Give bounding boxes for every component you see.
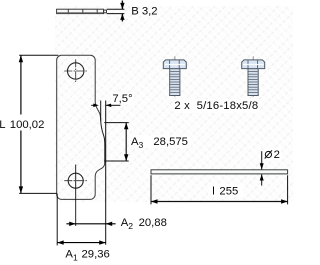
label diameter 2 — [264, 148, 282, 161]
bolt 1 head — [163, 60, 186, 69]
label 7,5deg — [111, 93, 135, 105]
diameter 2 arrow up — [260, 174, 264, 180]
bolt 1 centerline — [174, 56, 176, 98]
svg-text:L: L — [0, 119, 5, 131]
dimension l 255 extension lines — [151, 175, 288, 204]
bent edge line A — [101, 101, 105, 163]
angle 7,5 degree dimension left arrow — [91, 104, 94, 106]
svg-text:29,36: 29,36 — [82, 249, 110, 261]
bolt 1 threads — [170, 72, 179, 93]
dimension A2 left arrow — [69, 222, 76, 226]
dimension A1 left arrow — [57, 240, 64, 244]
dimension l arrow right — [281, 199, 288, 203]
bottom hole centerline extended to A2 dimension — [75, 165, 77, 227]
svg-text:2 x 5/16-18x5/8: 2 x 5/16-18x5/8 — [174, 100, 258, 112]
dimension B arrow up — [120, 14, 124, 20]
svg-text:100,02: 100,02 — [10, 119, 45, 131]
locating bar side view — [151, 170, 288, 174]
background hatch region — [55, 6, 293, 202]
svg-text:2: 2 — [274, 149, 280, 161]
svg-text:28,575: 28,575 — [153, 136, 188, 148]
dimension L arrow up — [19, 55, 23, 62]
dimension A1 right arrow — [99, 240, 106, 244]
top view thin plate body — [57, 9, 104, 13]
bolt 2 — [242, 56, 265, 98]
bolt 1 — [163, 56, 186, 98]
svg-text:A1: A1 — [65, 249, 78, 263]
top hole crosshair — [64, 59, 87, 83]
dimension A2 right arrow — [106, 222, 113, 226]
bolt 2 centerline — [252, 56, 254, 98]
dimension A3 extension lines — [104, 123, 129, 161]
diameter 2 arrow down — [260, 163, 264, 169]
dimension B 3,2 extension lines — [107, 1, 125, 22]
bolt 2 shaft — [248, 69, 258, 96]
bolt 1 shaft — [170, 69, 180, 96]
plate outline (front view) — [62, 55, 101, 121]
plate outline lower part — [57, 55, 105, 199]
angle 7,5 degree dimension right arrow — [106, 104, 120, 106]
dimension L arrow down — [19, 186, 23, 193]
bolt 2 head — [242, 60, 265, 69]
dimension A2 line — [66, 223, 115, 225]
top hole — [68, 63, 84, 79]
bottom hole — [68, 173, 83, 188]
dimension L extension lines — [19, 55, 58, 193]
label A3 28,575 — [129, 135, 191, 149]
svg-text:A2: A2 — [121, 217, 134, 231]
label l 255 — [208, 184, 244, 198]
svg-text:B 3,2: B 3,2 — [131, 6, 157, 18]
extension line B (vertical reference from tab tip) — [105, 101, 107, 245]
top view bent tab nub — [104, 10, 107, 13]
dimension A1 line — [57, 242, 105, 244]
svg-text:7,5°: 7,5° — [112, 93, 132, 105]
svg-text:20,88: 20,88 — [139, 217, 167, 229]
locating bar highlight — [152, 170, 287, 172]
dimension A3 arrow up — [124, 123, 128, 130]
label 2 x 5/16-18x5/8 — [173, 99, 259, 113]
bottom hole crosshair horizontal — [64, 180, 87, 182]
dimension A3 arrow down — [124, 154, 128, 161]
dimension B arrow down — [120, 3, 124, 9]
dimension l arrow left — [151, 199, 158, 203]
dimension A1 extension line left — [56, 194, 58, 246]
bolt 2 threads — [249, 72, 258, 93]
diameter 2 dimension — [261, 151, 263, 185]
